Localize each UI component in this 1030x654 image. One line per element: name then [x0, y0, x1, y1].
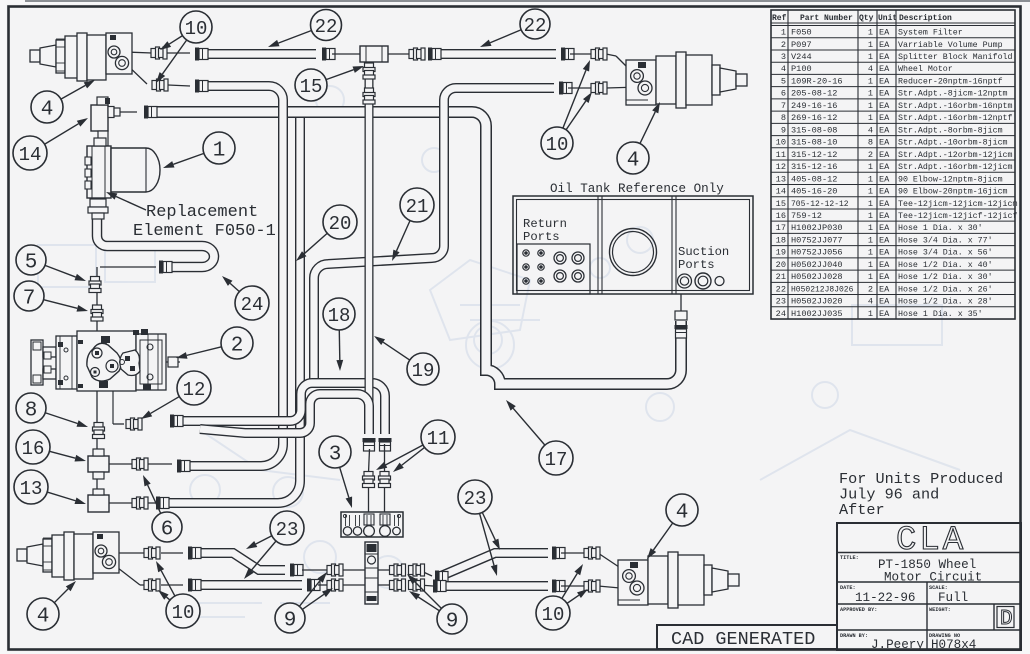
svg-text:5: 5 — [781, 76, 786, 86]
svg-text:H0502JJ020: H0502JJ020 — [791, 297, 843, 307]
svg-text:90 Elbow-12nptm-8jicm: 90 Elbow-12nptm-8jicm — [898, 174, 1003, 184]
svg-text:9: 9 — [284, 610, 297, 633]
svg-text:D: D — [1000, 608, 1013, 631]
svg-text:Hose 1/2 Dia. x 30': Hose 1/2 Dia. x 30' — [898, 272, 993, 282]
svg-text:EA: EA — [879, 297, 890, 307]
svg-text:10: 10 — [185, 18, 208, 40]
svg-text:3: 3 — [329, 444, 342, 467]
svg-text:4: 4 — [868, 125, 873, 135]
svg-text:Ref: Ref — [772, 14, 787, 23]
svg-text:EA: EA — [879, 199, 890, 209]
svg-text:Hose 1 Dia. x 30': Hose 1 Dia. x 30' — [898, 223, 983, 233]
svg-text:21: 21 — [776, 272, 786, 282]
svg-text:EA: EA — [879, 260, 890, 270]
svg-text:18: 18 — [328, 305, 351, 327]
svg-text:90 Elbow-20nptm-16jicm: 90 Elbow-20nptm-16jicm — [898, 187, 1008, 197]
svg-text:20: 20 — [776, 260, 786, 270]
svg-text:1: 1 — [868, 272, 873, 282]
svg-text:Qty: Qty — [859, 14, 874, 23]
svg-text:EA: EA — [879, 28, 890, 38]
svg-text:Varriable Volume Pump: Varriable Volume Pump — [898, 40, 1003, 50]
svg-text:EA: EA — [879, 76, 890, 86]
svg-text:13: 13 — [20, 478, 43, 500]
svg-text:Str.Adpt.-8jicm-12nptm: Str.Adpt.-8jicm-12nptm — [898, 89, 1008, 99]
svg-text:Str.Adpt.-16orbm-12nptf: Str.Adpt.-16orbm-12nptf — [898, 113, 1013, 123]
svg-text:4: 4 — [37, 606, 50, 629]
svg-text:EA: EA — [879, 272, 890, 282]
svg-text:1: 1 — [868, 309, 873, 319]
svg-text:8: 8 — [25, 400, 38, 423]
svg-text:19: 19 — [776, 248, 786, 258]
svg-text:269-16-12: 269-16-12 — [791, 113, 837, 123]
svg-text:TITLE:: TITLE: — [840, 555, 859, 561]
svg-text:759-12: 759-12 — [791, 211, 822, 221]
svg-text:EA: EA — [879, 150, 890, 160]
svg-text:H0502JJ040: H0502JJ040 — [791, 260, 843, 270]
svg-text:9: 9 — [446, 611, 459, 634]
svg-text:15: 15 — [776, 199, 786, 209]
svg-text:1: 1 — [868, 187, 873, 197]
svg-text:EA: EA — [879, 101, 890, 111]
svg-text:1: 1 — [868, 101, 873, 111]
svg-text:P097: P097 — [791, 40, 812, 50]
svg-text:Tee-12jicm-12jicf-12jicf: Tee-12jicm-12jicf-12jicf — [898, 211, 1018, 221]
svg-text:H0502JJ028: H0502JJ028 — [791, 272, 843, 282]
svg-text:EA: EA — [879, 309, 890, 319]
svg-text:Ports: Ports — [678, 258, 715, 272]
svg-text:1: 1 — [868, 52, 873, 62]
svg-text:EA: EA — [879, 113, 890, 123]
svg-text:EA: EA — [879, 89, 890, 99]
svg-text:15: 15 — [300, 76, 323, 98]
svg-text:11: 11 — [776, 150, 786, 160]
svg-text:12: 12 — [183, 379, 206, 401]
svg-text:249-16-16: 249-16-16 — [791, 101, 837, 111]
svg-text:J.Peery: J.Peery — [871, 638, 924, 652]
svg-text:Str.Adpt.-8orbm-8jicm: Str.Adpt.-8orbm-8jicm — [898, 125, 1003, 135]
svg-text:EA: EA — [879, 52, 890, 62]
svg-text:315-08-08: 315-08-08 — [791, 125, 837, 135]
svg-text:6: 6 — [161, 519, 174, 542]
svg-text:Hose 1/2 Dia. x 28': Hose 1/2 Dia. x 28' — [898, 297, 993, 307]
svg-text:EA: EA — [879, 235, 890, 245]
svg-text:Str.Adpt.-16orbm-12jicm: Str.Adpt.-16orbm-12jicm — [898, 162, 1013, 172]
svg-text:H078x4: H078x4 — [931, 638, 976, 652]
svg-text:16: 16 — [776, 211, 786, 221]
svg-text:109R-20-16: 109R-20-16 — [791, 76, 843, 86]
svg-text:Str.Adpt.-12orbm-12jicm: Str.Adpt.-12orbm-12jicm — [898, 150, 1013, 160]
svg-text:V244: V244 — [791, 52, 812, 62]
svg-text:21: 21 — [406, 196, 429, 218]
svg-text:EA: EA — [879, 174, 890, 184]
svg-text:2: 2 — [231, 335, 244, 358]
svg-text:1: 1 — [868, 89, 873, 99]
svg-text:8: 8 — [868, 138, 873, 148]
svg-text:EA: EA — [879, 187, 890, 197]
svg-text:1: 1 — [781, 28, 786, 38]
svg-text:After: After — [839, 501, 885, 519]
svg-text:705-12-12-12: 705-12-12-12 — [791, 200, 849, 209]
svg-text:20: 20 — [329, 213, 352, 235]
svg-text:EA: EA — [879, 284, 890, 294]
svg-text:Part Number: Part Number — [800, 14, 853, 23]
svg-text:11-22-96: 11-22-96 — [855, 591, 915, 605]
svg-text:Str.Adpt.-16orbm-16nptm: Str.Adpt.-16orbm-16nptm — [898, 101, 1013, 111]
svg-text:1: 1 — [868, 76, 873, 86]
svg-text:24: 24 — [241, 294, 264, 316]
svg-text:Hose 3/4 Dia. x 77': Hose 3/4 Dia. x 77' — [898, 235, 993, 245]
svg-text:14: 14 — [776, 187, 786, 197]
svg-text:1: 1 — [868, 162, 873, 172]
svg-text:4: 4 — [868, 297, 873, 307]
svg-text:H050212J8J026: H050212J8J026 — [791, 285, 854, 294]
svg-text:14: 14 — [19, 144, 42, 166]
svg-text:DATE:: DATE: — [840, 585, 856, 591]
svg-text:Ports: Ports — [523, 230, 560, 244]
svg-text:Element F050-1: Element F050-1 — [133, 222, 276, 241]
svg-text:Return: Return — [523, 217, 567, 231]
svg-text:1: 1 — [868, 211, 873, 221]
svg-text:1: 1 — [868, 174, 873, 184]
svg-text:7: 7 — [781, 101, 786, 111]
svg-text:22: 22 — [776, 284, 786, 294]
svg-text:Motor Circuit: Motor Circuit — [884, 571, 982, 585]
svg-text:1: 1 — [213, 140, 226, 163]
svg-text:3: 3 — [781, 52, 786, 62]
svg-text:4: 4 — [781, 64, 786, 74]
svg-text:5: 5 — [25, 252, 38, 275]
svg-text:1: 1 — [868, 235, 873, 245]
svg-text:1: 1 — [868, 199, 873, 209]
svg-text:205-08-12: 205-08-12 — [791, 89, 837, 99]
svg-text:8: 8 — [781, 113, 786, 123]
svg-text:4: 4 — [868, 64, 873, 74]
svg-text:19: 19 — [412, 360, 435, 382]
svg-text:405-08-12: 405-08-12 — [791, 174, 837, 184]
svg-text:Unit: Unit — [878, 14, 897, 23]
svg-text:Hose 1/2 Dia. x 26': Hose 1/2 Dia. x 26' — [898, 284, 993, 294]
svg-text:18: 18 — [776, 235, 786, 245]
svg-text:EA: EA — [879, 40, 890, 50]
svg-text:EA: EA — [879, 211, 890, 221]
svg-text:10: 10 — [776, 138, 786, 148]
svg-text:1: 1 — [868, 248, 873, 258]
svg-text:EA: EA — [879, 162, 890, 172]
svg-text:405-16-20: 405-16-20 — [791, 187, 837, 197]
svg-text:Hose 1/2 Dia. x 40': Hose 1/2 Dia. x 40' — [898, 260, 993, 270]
svg-text:22: 22 — [524, 15, 547, 37]
svg-text:4: 4 — [41, 99, 54, 122]
svg-text:23: 23 — [776, 297, 786, 307]
svg-text:2: 2 — [868, 150, 873, 160]
svg-text:10: 10 — [542, 604, 565, 626]
svg-text:Suction: Suction — [678, 245, 729, 259]
svg-text:Full: Full — [938, 591, 968, 605]
svg-text:WEIGHT:: WEIGHT: — [929, 607, 951, 613]
svg-text:EA: EA — [879, 125, 890, 135]
svg-text:9: 9 — [781, 125, 786, 135]
svg-text:4: 4 — [676, 502, 689, 525]
svg-text:Wheel Motor: Wheel Motor — [898, 64, 953, 74]
svg-text:P100: P100 — [791, 64, 812, 74]
svg-text:CLA: CLA — [896, 522, 966, 560]
svg-text:2: 2 — [868, 284, 873, 294]
svg-text:4: 4 — [627, 150, 640, 173]
svg-text:H1002JP030: H1002JP030 — [791, 223, 843, 233]
svg-text:22: 22 — [315, 16, 338, 38]
svg-text:EA: EA — [879, 248, 890, 258]
svg-text:6: 6 — [781, 89, 786, 99]
svg-text:10: 10 — [546, 134, 569, 156]
svg-text:Replacement: Replacement — [146, 203, 258, 222]
svg-text:315-12-16: 315-12-16 — [791, 162, 837, 172]
svg-text:2: 2 — [781, 40, 786, 50]
svg-text:Description: Description — [899, 14, 952, 23]
svg-text:Oil Tank Reference Only: Oil Tank Reference Only — [550, 182, 724, 196]
svg-text:CAD GENERATED: CAD GENERATED — [671, 629, 815, 650]
svg-text:1: 1 — [868, 28, 873, 38]
svg-text:1: 1 — [868, 223, 873, 233]
svg-text:System Filter: System Filter — [898, 28, 963, 38]
svg-text:17: 17 — [545, 449, 568, 471]
svg-text:13: 13 — [776, 174, 786, 184]
svg-text:11: 11 — [427, 428, 450, 450]
svg-text:Hose 3/4 Dia. x 56': Hose 3/4 Dia. x 56' — [898, 248, 993, 258]
svg-text:1: 1 — [868, 113, 873, 123]
svg-text:16: 16 — [22, 438, 45, 460]
svg-text:H0752JJ056: H0752JJ056 — [791, 248, 843, 258]
svg-text:H0752JJ077: H0752JJ077 — [791, 235, 843, 245]
svg-text:Str.Adpt.-10orbm-8jicm: Str.Adpt.-10orbm-8jicm — [898, 138, 1008, 148]
svg-text:10: 10 — [172, 602, 195, 624]
svg-text:315-12-12: 315-12-12 — [791, 150, 837, 160]
svg-text:H1002JJ035: H1002JJ035 — [791, 309, 843, 319]
svg-text:23: 23 — [464, 488, 487, 510]
svg-text:23: 23 — [276, 519, 299, 541]
svg-text:Tee-12jicm-12jicm-12jicm: Tee-12jicm-12jicm-12jicm — [898, 199, 1018, 209]
svg-text:1: 1 — [868, 40, 873, 50]
svg-text:EA: EA — [879, 138, 890, 148]
svg-text:F050: F050 — [791, 28, 812, 38]
svg-text:24: 24 — [776, 309, 786, 319]
svg-text:7: 7 — [23, 288, 36, 311]
svg-text:EA: EA — [879, 223, 890, 233]
svg-text:315-08-10: 315-08-10 — [791, 138, 837, 148]
svg-text:12: 12 — [776, 162, 786, 172]
svg-text:APPROVED BY:: APPROVED BY: — [840, 607, 877, 613]
svg-text:Splitter Block Manifold: Splitter Block Manifold — [898, 52, 1013, 62]
svg-text:17: 17 — [776, 223, 786, 233]
svg-text:Hose 1 Dia. x 35': Hose 1 Dia. x 35' — [898, 309, 983, 319]
svg-text:EA: EA — [879, 64, 890, 74]
svg-text:Reducer-20nptm-16nptf: Reducer-20nptm-16nptf — [898, 76, 1003, 86]
svg-text:DRAWN BY:: DRAWN BY: — [840, 633, 868, 639]
svg-text:1: 1 — [868, 260, 873, 270]
